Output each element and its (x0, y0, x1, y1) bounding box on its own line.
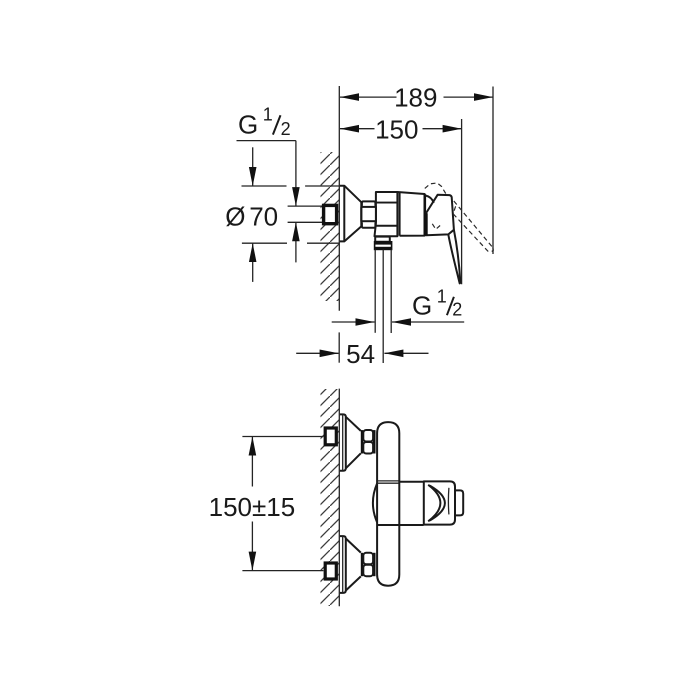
dashed check detail (432, 224, 440, 230)
lower square union (front view) (325, 563, 336, 579)
body capsule (front view) (377, 422, 399, 586)
wall hatch (front view) (321, 389, 340, 606)
svg-text:1: 1 (263, 105, 273, 125)
handle knob (front view) (455, 490, 463, 515)
G1/2 leader underline (237, 140, 296, 142)
svg-text:2: 2 (452, 299, 462, 319)
inlet pipe lines in wall (288, 206, 323, 222)
Ø70 extension line top (242, 185, 340, 187)
G1/2 outlet dimension arrows (332, 321, 465, 323)
wall hatch (side view) (321, 152, 340, 301)
inlet square union (side view) (324, 205, 337, 223)
G1/2 leader arrows to inlet pipe (295, 141, 297, 263)
cartridge housing lines (377, 481, 424, 525)
extension line lower union (242, 570, 323, 572)
outlet nut (375, 242, 392, 250)
mixer body section 2 (side view) (397, 192, 424, 236)
svg-text:70: 70 (249, 201, 278, 231)
svg-text:150: 150 (375, 114, 418, 144)
extension line for 189 at handle tip (492, 87, 494, 255)
wall line (front view) (338, 389, 340, 607)
body seam (399, 192, 401, 236)
svg-text:G: G (238, 109, 258, 139)
upper hex nut (front view) (361, 430, 376, 454)
dimension 189 line (340, 96, 493, 98)
escutcheon (side view) (340, 186, 361, 242)
Ø70 extension line bottom (242, 242, 340, 244)
dome arc (426, 196, 434, 203)
svg-text:150±15: 150±15 (209, 492, 296, 522)
lever handle (solid) (426, 195, 461, 284)
cap junction (side view) (423, 194, 426, 235)
shower hose outlet lines (375, 250, 391, 364)
Ø70 text (225, 201, 278, 231)
label G1/2 outlet (412, 287, 462, 321)
lower escutcheon (front view) (340, 536, 361, 593)
upper square union (front view) (325, 428, 336, 445)
supply bulge arc (373, 483, 377, 522)
lower hex nut (front view) (361, 553, 376, 576)
extension line upper union (242, 436, 323, 438)
dimension 150 line (340, 128, 462, 130)
svg-text:2: 2 (281, 119, 291, 139)
svg-text:189: 189 (394, 83, 437, 113)
svg-text:Ø: Ø (225, 201, 245, 231)
dashed cap outline (alt position) (425, 183, 446, 194)
dimension 54 (296, 332, 428, 362)
svg-text:54: 54 (346, 339, 375, 369)
cap crescent highlight (428, 485, 449, 522)
extension line for 150 at lever tip (461, 119, 463, 284)
mixer body section 1 (side view) (375, 192, 398, 236)
hex nut inlet (side view) (361, 201, 376, 227)
svg-text:1: 1 (437, 287, 447, 307)
upper escutcheon (front view) (340, 414, 361, 470)
dimension Ø70 arrows (252, 147, 254, 282)
svg-text:G: G (412, 291, 432, 321)
label G1/2 inlet (238, 105, 291, 140)
dashed lever (alt position) (453, 201, 493, 253)
dimension 150±15 line (251, 437, 253, 571)
handle cap (front view) (424, 481, 455, 524)
wall line (side view) (338, 86, 340, 311)
outlet stub (375, 237, 390, 242)
